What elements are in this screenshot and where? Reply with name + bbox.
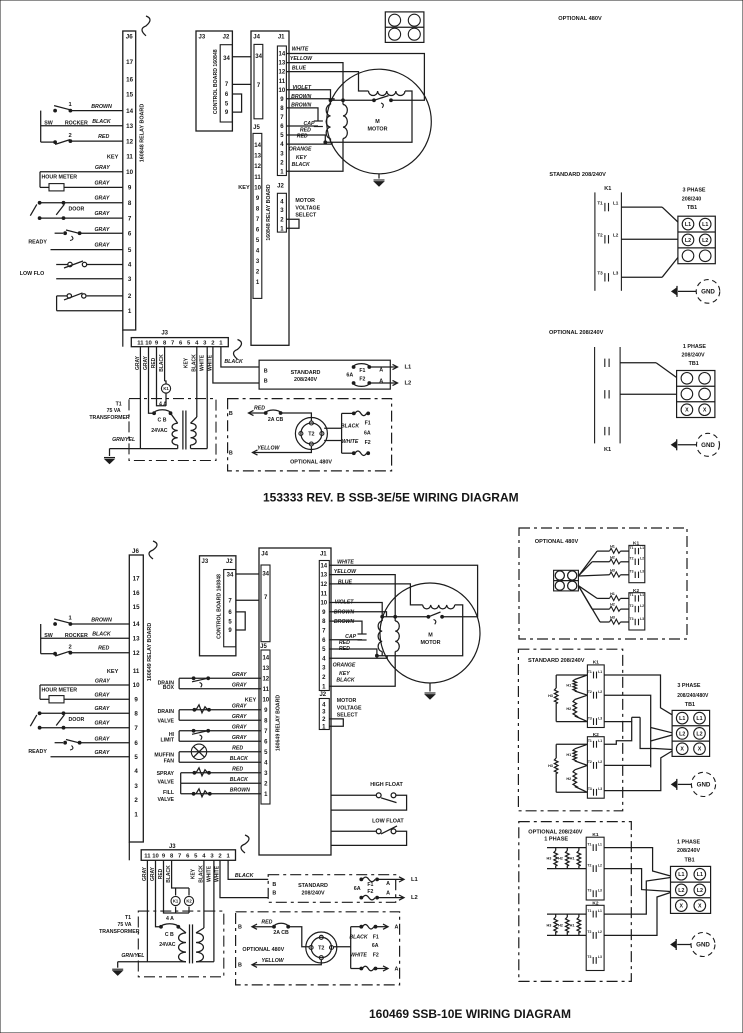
svg-text:11: 11	[126, 154, 133, 161]
wire J3-10 GRAY to fuse	[149, 347, 155, 414]
svg-text:L1: L1	[598, 670, 602, 674]
svg-text:L3: L3	[598, 955, 602, 959]
wire primary bottom to J3-3 bottom	[196, 961, 214, 963]
svg-text:ROCKER: ROCKER	[65, 120, 88, 126]
wire J3-10 GRAY to fuse bottom	[156, 860, 162, 927]
wire break squiggle near J3 bottom	[241, 835, 249, 853]
svg-text:10: 10	[262, 697, 269, 703]
wire J3-2 WHITE to standard box bottom	[220, 860, 268, 897]
svg-text:J1: J1	[278, 34, 285, 40]
svg-text:L2: L2	[598, 930, 602, 934]
transformer T1 box	[129, 399, 216, 461]
svg-text:X: X	[703, 408, 707, 414]
svg-text:WHITE: WHITE	[337, 559, 354, 565]
svg-text:12: 12	[254, 164, 261, 170]
svg-text:OPTIONAL 208/240V: OPTIONAL 208/240V	[528, 829, 583, 835]
connector J1	[277, 46, 286, 176]
motor M1 circle bottom	[380, 583, 480, 683]
wire RED with breaker 2A CB	[249, 410, 254, 415]
svg-text:T2: T2	[588, 760, 592, 764]
svg-text:VOLTAGE: VOLTAGE	[295, 205, 320, 211]
wire J3-8 BLACK to K1 coil	[164, 347, 166, 381]
wire GRN/YEL ground	[110, 448, 178, 450]
svg-text:B: B	[272, 882, 276, 888]
ground GND optional	[672, 441, 677, 448]
svg-text:L1: L1	[697, 872, 703, 878]
svg-text:GND: GND	[701, 289, 715, 296]
svg-text:T3: T3	[588, 716, 592, 720]
wire pin3	[56, 278, 123, 280]
svg-text:L1: L1	[640, 546, 644, 550]
wire J3-9 RED to relay coils	[164, 860, 190, 913]
svg-text:34: 34	[223, 56, 230, 62]
svg-text:READY: READY	[28, 239, 47, 245]
wire J3-8 BLACK to relay coils	[172, 860, 189, 888]
transformer secondary bottom	[179, 933, 186, 962]
svg-text:A: A	[386, 881, 390, 887]
svg-text:L2: L2	[640, 557, 644, 561]
svg-text:11: 11	[137, 340, 144, 346]
svg-text:14: 14	[133, 621, 140, 628]
wire T2 to fuses bottom	[334, 946, 351, 948]
switch SW ROCKER pole 2 bottom	[70, 652, 129, 654]
fuse 4A bottom	[160, 925, 163, 928]
svg-text:STANDARD 208/240V: STANDARD 208/240V	[528, 658, 585, 664]
motor start winding bottom	[423, 605, 455, 609]
wires block to K1 480V	[578, 551, 597, 576]
svg-text:208/240/480V: 208/240/480V	[677, 693, 709, 699]
svg-text:T1: T1	[630, 593, 634, 597]
wire control 7 bottom	[236, 599, 259, 601]
svg-text:LIMIT: LIMIT	[160, 738, 174, 744]
svg-text:H1: H1	[566, 683, 571, 687]
svg-text:12: 12	[279, 70, 286, 76]
svg-text:KEY: KEY	[190, 868, 196, 879]
relay coil K1	[161, 384, 170, 393]
switch LOW FLO float	[87, 264, 123, 266]
svg-text:RED: RED	[232, 746, 243, 752]
svg-text:14: 14	[279, 52, 286, 58]
svg-text:J2: J2	[226, 559, 233, 565]
svg-text:T1: T1	[125, 915, 131, 921]
svg-text:T1: T1	[587, 842, 591, 846]
svg-text:10: 10	[145, 340, 152, 346]
svg-text:B: B	[238, 925, 242, 931]
svg-text:GRAY: GRAY	[232, 735, 247, 741]
svg-text:J5: J5	[253, 125, 260, 131]
transformer T1 secondary winding	[172, 423, 178, 445]
wire break squiggle J6 bottom diagram	[149, 541, 157, 559]
svg-text:WHITE: WHITE	[350, 952, 367, 958]
svg-text:HIGH FLOAT: HIGH FLOAT	[370, 782, 403, 788]
switch DOOR pole 2 bottom	[40, 727, 130, 729]
svg-text:14: 14	[254, 143, 261, 149]
fuse F2 bottom std	[360, 896, 363, 899]
wire YELLOW bottom	[252, 960, 321, 965]
svg-text:SW: SW	[44, 633, 53, 639]
svg-text:208/240V: 208/240V	[294, 377, 317, 383]
wire SW common bus bottom	[40, 624, 42, 654]
svg-text:KEY: KEY	[339, 671, 350, 677]
svg-text:K2: K2	[186, 899, 192, 904]
load MUFFIN FAN	[179, 751, 261, 753]
svg-text:GRN/YEL: GRN/YEL	[112, 437, 135, 443]
power box OPTIONAL 480V	[228, 399, 392, 471]
svg-text:2: 2	[128, 293, 132, 300]
svg-text:L3: L3	[598, 787, 602, 791]
svg-text:L2: L2	[685, 238, 691, 244]
wire YELLOW	[253, 446, 312, 452]
svg-text:OPTIONAL 480V: OPTIONAL 480V	[290, 459, 332, 465]
svg-text:OPTIONAL 480V: OPTIONAL 480V	[535, 539, 579, 545]
box STANDARD 208/240V heaters	[518, 649, 622, 811]
svg-text:K1: K1	[604, 447, 611, 453]
wire J3-1 BLACK to standard box	[221, 347, 259, 367]
wire control 34 bottom	[236, 573, 259, 575]
wire YELLOW J1-13	[286, 63, 343, 101]
svg-text:GRAY: GRAY	[94, 180, 109, 186]
svg-text:YELLOW: YELLOW	[261, 958, 284, 964]
svg-text:208/240V: 208/240V	[301, 890, 324, 896]
heater fuses H1 H2 H3 K1 480V	[610, 548, 621, 553]
svg-text:YELLOW: YELLOW	[290, 56, 313, 62]
svg-text:13: 13	[279, 61, 286, 67]
svg-text:TB1: TB1	[685, 702, 695, 708]
wire to L1	[369, 366, 397, 368]
transformer T1 core	[182, 411, 184, 450]
wire RED J1-5 bottom	[329, 649, 377, 656]
svg-text:11: 11	[133, 668, 140, 675]
svg-text:YELLOW: YELLOW	[334, 569, 357, 575]
svg-text:FAN: FAN	[164, 759, 175, 765]
svg-text:2: 2	[68, 644, 71, 650]
svg-text:10: 10	[320, 601, 327, 607]
centrifugal switch	[373, 99, 376, 102]
wires 1phase to TB1	[604, 848, 670, 876]
motor main winding bottom	[381, 617, 383, 621]
svg-text:STANDARD 208/240V: STANDARD 208/240V	[549, 172, 606, 178]
svg-text:10: 10	[279, 88, 286, 94]
svg-text:T3: T3	[587, 955, 591, 959]
heater fuses K2 480V	[610, 596, 621, 601]
wire BROWN J1-9 bottom	[329, 612, 386, 617]
svg-text:KEY: KEY	[238, 185, 250, 191]
svg-text:75 VA: 75 VA	[107, 408, 121, 414]
svg-text:208/240V: 208/240V	[681, 352, 704, 358]
svg-text:B: B	[264, 369, 268, 375]
svg-text:GRAY: GRAY	[94, 243, 109, 249]
wire J3-1 BLACK to standard box bottom	[228, 860, 268, 879]
svg-text:B: B	[229, 450, 233, 456]
svg-text:160649 RELAY BOARD: 160649 RELAY BOARD	[147, 623, 153, 682]
svg-text:12: 12	[320, 582, 327, 588]
svg-text:READY: READY	[28, 749, 47, 755]
svg-text:12: 12	[126, 138, 133, 145]
svg-text:OPTIONAL 480V: OPTIONAL 480V	[242, 947, 284, 953]
wire BLACK pin13	[41, 125, 123, 127]
svg-text:BLACK: BLACK	[224, 359, 244, 365]
svg-text:L2: L2	[696, 731, 702, 737]
svg-text:15: 15	[133, 604, 140, 611]
motor run line bottom	[382, 616, 428, 618]
svg-text:OPTIONAL 480V: OPTIONAL 480V	[558, 16, 602, 22]
svg-text:24VAC: 24VAC	[151, 428, 168, 434]
wire ORANGE J1-4 bottom	[329, 656, 387, 659]
svg-text:H2: H2	[566, 777, 571, 781]
fuse F1 bottom std	[360, 878, 363, 881]
wire optional row1 to TB1	[620, 362, 656, 364]
svg-text:H1: H1	[610, 592, 615, 596]
svg-text:SELECT: SELECT	[337, 713, 359, 719]
svg-text:TB1: TB1	[689, 361, 699, 367]
svg-text:L1: L1	[598, 909, 602, 913]
svg-text:34: 34	[227, 573, 234, 579]
contactor K1 optional	[594, 347, 596, 443]
svg-text:L3: L3	[598, 716, 602, 720]
svg-text:GRAY: GRAY	[94, 750, 109, 756]
svg-text:17: 17	[133, 576, 140, 583]
svg-text:34: 34	[255, 54, 262, 60]
svg-text:VOLTAGE: VOLTAGE	[337, 705, 362, 711]
svg-text:T1: T1	[597, 200, 603, 205]
wire J3-4 primary top bottom	[203, 860, 205, 928]
svg-text:GRAY: GRAY	[94, 692, 109, 698]
svg-text:M: M	[375, 119, 380, 125]
fuse F1 480V bottom	[360, 925, 363, 928]
svg-text:L1: L1	[640, 593, 644, 597]
svg-text:KEY: KEY	[245, 697, 257, 703]
svg-text:T3: T3	[630, 570, 634, 574]
svg-text:VIOLET: VIOLET	[335, 599, 355, 605]
svg-text:SW: SW	[44, 120, 53, 126]
svg-text:KEY: KEY	[107, 669, 119, 675]
relay board 160848 outline	[251, 31, 289, 345]
svg-text:L1: L1	[678, 872, 684, 878]
switch SW ROCKER pole 2	[70, 140, 122, 142]
control board 160848 bottom	[200, 556, 236, 656]
svg-text:J3: J3	[202, 559, 209, 565]
svg-text:11: 11	[144, 853, 151, 859]
wire BROWN J1-9	[286, 99, 334, 101]
svg-text:11: 11	[279, 79, 286, 85]
wire jumper J2 pins 6-9	[232, 94, 241, 112]
svg-text:3: 3	[128, 276, 132, 283]
svg-text:GRAY: GRAY	[232, 683, 247, 689]
svg-text:3: 3	[134, 783, 138, 790]
svg-text:GRAY: GRAY	[95, 679, 110, 685]
wire break squiggle near J3	[234, 340, 242, 360]
svg-text:L1: L1	[411, 877, 419, 883]
svg-text:GRAY: GRAY	[94, 211, 109, 217]
svg-text:5: 5	[128, 247, 132, 254]
wire GRAY pin5	[51, 249, 123, 251]
svg-text:L1: L1	[679, 716, 685, 722]
transformer T2	[295, 418, 327, 450]
wire VIOLET J1-10	[286, 90, 330, 101]
svg-text:J4: J4	[261, 551, 268, 557]
svg-text:H1: H1	[570, 857, 575, 861]
svg-text:H2: H2	[566, 707, 571, 711]
svg-text:6: 6	[128, 230, 132, 237]
svg-text:DOOR: DOOR	[68, 717, 84, 723]
svg-text:2: 2	[68, 133, 71, 139]
switch DOOR pole 1	[40, 202, 123, 204]
svg-text:8: 8	[128, 200, 132, 207]
svg-text:5: 5	[134, 754, 138, 761]
svg-text:F2: F2	[359, 377, 365, 383]
svg-text:F1: F1	[373, 934, 379, 940]
svg-text:T2: T2	[630, 604, 634, 608]
svg-text:75 VA: 75 VA	[117, 922, 131, 928]
switch READY	[80, 232, 123, 234]
wire K1-T2 to TB1	[621, 238, 678, 240]
wire J3-9 RED to K1 coil	[157, 347, 167, 406]
svg-text:T1: T1	[630, 546, 634, 550]
wire VIOLET J1-10 bottom	[329, 603, 382, 617]
power box STANDARD 208/240V	[259, 360, 390, 389]
svg-text:X: X	[698, 903, 702, 909]
svg-text:11: 11	[263, 687, 270, 693]
wire J3-11 GRAY bottom	[146, 860, 148, 961]
svg-text:7: 7	[134, 725, 138, 732]
svg-text:H2: H2	[610, 555, 615, 559]
load DRAIN VALVE	[179, 709, 261, 711]
wire J3-4 to primary top	[196, 347, 198, 417]
svg-text:F1: F1	[367, 882, 373, 888]
svg-text:T1: T1	[588, 670, 592, 674]
svg-text:MOTOR: MOTOR	[421, 640, 441, 646]
svg-text:160469 SSB-10E WIRING DIAGRAM: 160469 SSB-10E WIRING DIAGRAM	[369, 1007, 571, 1021]
svg-text:GRN/YEL: GRN/YEL	[121, 953, 144, 959]
svg-text:T2: T2	[630, 557, 634, 561]
ground GND 1phase bottom	[671, 941, 676, 948]
svg-text:T2: T2	[318, 945, 324, 951]
wire K1-T1 to TB1	[621, 206, 662, 208]
svg-text:T2: T2	[588, 690, 592, 694]
svg-text:M: M	[428, 632, 433, 638]
svg-text:J3: J3	[161, 331, 168, 337]
svg-text:RED: RED	[98, 646, 109, 652]
svg-text:L3: L3	[613, 271, 619, 276]
svg-text:WHITE: WHITE	[342, 439, 359, 445]
svg-text:CONTROL BOARD 160848: CONTROL BOARD 160848	[217, 574, 223, 639]
svg-text:6A: 6A	[364, 430, 371, 436]
svg-text:14: 14	[262, 655, 269, 661]
wire to L2	[369, 382, 397, 384]
svg-text:12: 12	[262, 676, 269, 682]
svg-text:L1: L1	[696, 716, 702, 722]
svg-text:3 PHASE: 3 PHASE	[677, 683, 700, 689]
svg-text:GRAY: GRAY	[94, 721, 109, 727]
svg-text:TB1: TB1	[685, 857, 695, 863]
svg-text:MOTOR: MOTOR	[368, 126, 388, 132]
wire jumper J2 2-1 bottom	[329, 719, 343, 726]
svg-text:T3: T3	[630, 617, 634, 621]
connector J1 bottom	[319, 561, 329, 691]
svg-text:RED: RED	[98, 134, 109, 140]
svg-text:LOW FLO: LOW FLO	[20, 271, 44, 277]
fuse F1	[352, 366, 355, 369]
svg-text:GND: GND	[697, 782, 711, 789]
svg-text:H3: H3	[546, 923, 551, 927]
svg-text:BROWN: BROWN	[91, 104, 112, 110]
switch float pin2-pin1	[87, 295, 123, 297]
svg-text:L3: L3	[640, 570, 644, 574]
svg-text:J3: J3	[199, 34, 206, 40]
svg-text:LOW FLOAT: LOW FLOAT	[372, 818, 404, 824]
svg-text:RED: RED	[300, 127, 311, 133]
wire jumper 6-9 bottom	[236, 612, 245, 630]
svg-text:13: 13	[254, 154, 261, 160]
svg-text:L2: L2	[598, 863, 602, 867]
svg-text:K1: K1	[173, 899, 179, 904]
svg-text:C B: C B	[158, 417, 167, 423]
svg-text:BLUE: BLUE	[292, 66, 307, 72]
svg-text:L2: L2	[679, 731, 685, 737]
svg-text:L2: L2	[598, 690, 602, 694]
wire YELLOW J1-13 bottom	[329, 575, 395, 617]
wire BLUE J1-12	[286, 72, 368, 91]
svg-text:FILL: FILL	[163, 790, 175, 796]
svg-text:F1: F1	[359, 368, 365, 374]
capacitor CAP bottom	[358, 633, 367, 635]
svg-text:RED: RED	[232, 767, 243, 773]
svg-text:L1: L1	[702, 222, 708, 228]
svg-text:1 PHASE: 1 PHASE	[683, 344, 706, 350]
wire KEY BLACK J1-1	[286, 139, 343, 172]
heaters K2 standard bottom	[556, 743, 587, 745]
svg-text:RED: RED	[297, 134, 308, 140]
svg-text:4 A: 4 A	[166, 916, 174, 922]
svg-text:H1: H1	[610, 545, 615, 549]
svg-text:X: X	[685, 408, 689, 414]
wire control J2-34 to J4-34	[232, 56, 251, 58]
svg-text:10: 10	[126, 169, 133, 176]
svg-text:KEY: KEY	[107, 154, 119, 160]
svg-text:153333 REV. B SSB-3E/5E WIRING: 153333 REV. B SSB-3E/5E WIRING DIAGRAM	[263, 491, 519, 505]
transformer T1 box bottom	[138, 911, 224, 977]
svg-text:BLACK: BLACK	[230, 756, 249, 762]
svg-text:9: 9	[128, 185, 132, 192]
control board 160848	[196, 31, 232, 131]
svg-text:10: 10	[254, 185, 261, 191]
svg-text:MOTOR: MOTOR	[337, 698, 357, 704]
power box STANDARD 208/240V bottom	[268, 875, 396, 903]
svg-text:160848 RELAY BOARD: 160848 RELAY BOARD	[266, 184, 272, 240]
svg-text:GRAY: GRAY	[94, 706, 109, 712]
svg-text:SELECT: SELECT	[295, 213, 317, 219]
motor M1 circle	[327, 69, 432, 174]
svg-text:17: 17	[126, 59, 133, 66]
svg-text:H3: H3	[610, 616, 615, 620]
switch READY bottom	[80, 742, 130, 744]
load DRAIN BOX	[179, 677, 261, 679]
svg-text:DRAIN: DRAIN	[158, 709, 175, 715]
svg-text:BROWN: BROWN	[291, 103, 311, 109]
svg-text:A: A	[379, 379, 383, 385]
svg-text:T1: T1	[587, 909, 591, 913]
svg-text:BLACK: BLACK	[349, 934, 368, 940]
svg-text:RED: RED	[339, 640, 350, 646]
svg-text:K1: K1	[604, 186, 611, 192]
svg-text:16: 16	[126, 76, 133, 83]
svg-text:ORANGE: ORANGE	[333, 662, 356, 668]
wires block to K2 480V	[578, 586, 597, 599]
svg-text:T2: T2	[597, 233, 603, 238]
svg-text:14: 14	[320, 563, 327, 569]
svg-text:HOUR METER: HOUR METER	[41, 688, 77, 694]
svg-text:GND: GND	[701, 442, 715, 449]
